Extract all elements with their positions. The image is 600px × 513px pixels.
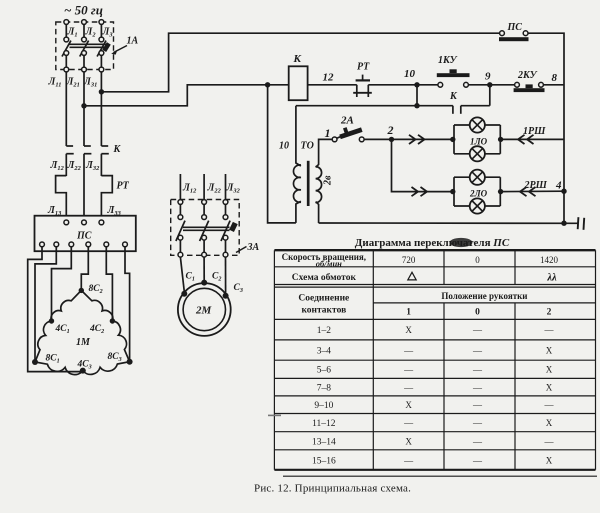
wire junction down to primary bottom rail [268, 85, 296, 223]
breaker 1А handle blob [104, 43, 109, 50]
svg-text:С1: С1 [186, 272, 195, 283]
svg-text:—: — [472, 346, 483, 356]
svg-text:Л2: Л2 [85, 27, 97, 39]
svg-text:4С2: 4С2 [89, 324, 104, 335]
node 4С1 [49, 318, 54, 323]
svg-text:К: К [449, 91, 458, 102]
svg-text:720: 720 [402, 255, 416, 265]
svg-text:9–10: 9–10 [314, 401, 333, 411]
svg-text:4С1: 4С1 [55, 324, 70, 335]
terminal С1 [181, 291, 187, 297]
lamp group 1ЛО [454, 117, 500, 161]
svg-text:0: 0 [475, 307, 480, 317]
ПС bottom terminal 2 [54, 242, 59, 247]
svg-text:—: — [544, 400, 555, 410]
breaker 3А pole 2 [200, 200, 209, 258]
svg-text:15–16: 15–16 [312, 457, 336, 467]
svg-text:—: — [544, 325, 555, 335]
svg-text:—: — [403, 346, 414, 356]
junction node on К branch [414, 103, 419, 108]
svg-text:1: 1 [325, 126, 331, 140]
thermal relay contact РТ [353, 75, 372, 97]
connector socket 1РШ [527, 135, 534, 144]
pushbutton 1КУ [437, 69, 470, 87]
svg-text:РТ: РТ [117, 181, 130, 192]
node 4С2 [110, 318, 115, 323]
svg-text:Л1: Л1 [67, 27, 78, 39]
svg-text:λλ: λλ [546, 273, 557, 284]
svg-text:X: X [405, 325, 412, 335]
wire node 2 down to branch 2 [392, 139, 452, 191]
svg-text:13–14: 13–14 [312, 437, 336, 447]
svg-text:—: — [472, 365, 483, 375]
node 8С2 [79, 288, 84, 293]
svg-text:—: — [403, 382, 414, 392]
svg-text:—: — [403, 418, 414, 428]
motor 1М winding [35, 290, 130, 374]
wire secondary bottom rail to earth [319, 222, 578, 224]
svg-text:0: 0 [475, 255, 480, 265]
svg-text:X: X [546, 365, 553, 375]
wire stub Л32 (to 3А) [225, 174, 227, 200]
wire Л21 to coil К [84, 85, 289, 106]
wire 1ЛО to 1РШ [500, 138, 564, 140]
svg-text:Рис. 12. Принципиальная схе: Рис. 12. Принципиальная схема. [254, 483, 411, 495]
svg-text:Диаграмма переключателя ПС: Диаграмма переключателя ПС [355, 237, 510, 249]
wire 3А to С2 [203, 257, 205, 282]
svg-text:С2: С2 [212, 272, 221, 283]
svg-text:Л22: Л22 [67, 160, 82, 172]
wire Л21 phase [83, 72, 85, 146]
node 4С3 [80, 368, 86, 374]
wire ПС t1 to node 4С3 [28, 247, 83, 372]
label 1А with leader arrow [111, 36, 138, 55]
ПС bottom terminal 5 [104, 242, 109, 247]
transformer ТО primary winding [293, 165, 300, 202]
svg-text:2РШ: 2РШ [524, 180, 548, 191]
svg-text:об/мин: об/мин [316, 259, 342, 269]
svg-text:X: X [405, 436, 412, 446]
svg-text:—: — [472, 382, 483, 392]
node 8С1 [32, 359, 38, 365]
terminal С3 [223, 293, 229, 299]
contactor coil К [289, 66, 308, 100]
junction right of 2ЛО [498, 189, 503, 194]
svg-text:—: — [472, 436, 483, 446]
svg-text:—: — [472, 418, 483, 428]
wire ПС t3 to node 4С1 [52, 247, 72, 321]
svg-text:—: — [472, 400, 483, 410]
ПС top terminal 33 [99, 220, 104, 225]
transformer ТО secondary top lead [316, 139, 333, 167]
svg-text:Л31: Л31 [83, 77, 97, 89]
wire РТ to node 10 [368, 84, 438, 86]
svg-text:—: — [472, 456, 483, 466]
svg-text:2КУ: 2КУ [517, 70, 538, 81]
lamp group 2ЛО [454, 170, 500, 214]
svg-text:Л3: Л3 [102, 27, 114, 39]
svg-text:Схема обмоток: Схема обмоток [292, 272, 357, 283]
ink smudge on title [450, 238, 473, 247]
switch ПС body [35, 216, 136, 252]
earth symbol [578, 217, 585, 230]
svg-text:X: X [546, 418, 553, 428]
breaker 3А mechanical link bar [183, 226, 230, 228]
svg-text:Л21: Л21 [66, 77, 80, 89]
svg-text:2в: 2в [323, 175, 334, 186]
transformer ТО secondary winding [316, 167, 322, 203]
svg-text:X: X [405, 400, 412, 410]
svg-text:—: — [472, 325, 483, 335]
svg-text:4: 4 [555, 180, 562, 192]
svg-text:Л32: Л32 [85, 160, 100, 172]
stray scan mark [268, 415, 281, 417]
wire stub Л22 (to 3А) [203, 174, 205, 200]
svg-text:2: 2 [387, 123, 394, 137]
svg-text:5–6: 5–6 [317, 366, 332, 376]
svg-text:8С2: 8С2 [89, 284, 103, 295]
wire ПС t2 to node 8С1 [35, 247, 56, 362]
breaker 3А dashed enclosure [171, 200, 240, 256]
svg-text:~ 50 гц: ~ 50 гц [64, 3, 103, 18]
wire Л31 to ПС contact (top run) [101, 33, 499, 92]
svg-text:8С3: 8С3 [108, 352, 122, 363]
svg-text:3–4: 3–4 [317, 347, 332, 357]
breaker 3А pole 1 [176, 200, 185, 258]
junction left of 2ЛО [450, 189, 455, 194]
wire Л31 phase [100, 72, 102, 146]
thermal relay РТ heater pole 1 [56, 176, 67, 220]
svg-text:1А: 1А [127, 36, 139, 47]
svg-text:4С3: 4С3 [77, 360, 92, 371]
svg-text:1420: 1420 [540, 255, 559, 265]
junction node to transformer branch [265, 82, 270, 87]
svg-text:—: — [403, 365, 414, 375]
svg-text:X: X [546, 382, 553, 392]
wire 1КУ to node 9 [468, 84, 514, 86]
svg-text:1: 1 [406, 307, 411, 317]
transformer ТО primary lead [296, 106, 301, 166]
svg-text:1КУ: 1КУ [438, 55, 458, 66]
contactor К main contact pole 3 [101, 146, 108, 176]
junction left of 1ЛО [450, 137, 455, 142]
wire 2КУ to node 8 [543, 84, 564, 86]
svg-text:Л11: Л11 [48, 77, 62, 89]
svg-text:2А: 2А [340, 115, 354, 127]
breaker 1А pole 1 [62, 20, 71, 72]
ПС top terminal 13 [64, 220, 69, 225]
node 10 [414, 82, 419, 87]
svg-text:9: 9 [485, 71, 491, 83]
svg-text:2М: 2М [195, 305, 213, 317]
contact К (auxiliary, parallel to 1КУ) [296, 85, 490, 114]
svg-text:X: X [546, 346, 553, 356]
node 8С3 [127, 359, 133, 365]
ПС bottom terminal 1 [40, 242, 45, 247]
junction on Л31 [99, 89, 104, 94]
svg-text:—: — [544, 436, 555, 446]
ПС top terminal 23 [82, 220, 87, 225]
svg-text:X: X [546, 456, 553, 466]
svg-text:ПС: ПС [76, 231, 92, 242]
connector plug on branch 1 [409, 135, 416, 144]
breaker 3А pole 3 [221, 200, 230, 258]
svg-text:К: К [293, 53, 302, 65]
svg-text:ПС: ПС [507, 22, 523, 33]
breaker 1А dashed enclosure [56, 22, 114, 70]
breaker 1А pole 3 [97, 20, 106, 72]
label 3А with leader [236, 242, 260, 253]
svg-text:Л32: Л32 [226, 183, 241, 195]
wire ПС t6 to node 8С3 [125, 247, 130, 362]
wire coil К to РТ [308, 84, 357, 86]
ПС bottom terminal 6 [123, 242, 128, 247]
svg-text:Л12: Л12 [182, 183, 197, 195]
svg-text:Положение рукоятки: Положение рукоятки [441, 291, 527, 301]
wire stub Л12 (to 3А) [179, 174, 181, 200]
svg-text:2: 2 [547, 307, 552, 317]
breaker 3А handle blob [232, 223, 236, 231]
node 9 [487, 82, 492, 87]
svg-text:—: — [403, 456, 414, 466]
switch 2А [332, 128, 364, 142]
svg-text:11–12: 11–12 [312, 419, 336, 429]
contactor К main contact pole 1 [66, 146, 73, 176]
transformer ТО core [307, 161, 310, 206]
svg-text:10: 10 [404, 68, 416, 80]
svg-text:1М: 1М [76, 337, 91, 348]
contactor К main contact pole 2 [84, 146, 91, 220]
svg-text:С3: С3 [234, 283, 243, 294]
svg-text:Л12: Л12 [50, 160, 65, 172]
terminal С2 [201, 280, 207, 286]
wire ПС to node 8 and down right side [528, 33, 564, 223]
node 4 [561, 189, 566, 194]
wire ПС t4 to node 8С2 [81, 247, 88, 291]
contact ПС (auxiliary, top) [499, 31, 529, 41]
svg-text:1ЛО: 1ЛО [470, 136, 488, 146]
svg-text:2ЛО: 2ЛО [469, 189, 488, 199]
svg-text:8: 8 [552, 72, 558, 84]
motor 2М body [178, 283, 231, 336]
wire ПС t5 to node 4С2 [106, 247, 112, 321]
ПС bottom terminal 3 [69, 242, 74, 247]
svg-text:Л22: Л22 [207, 183, 222, 195]
svg-text:РТ: РТ [357, 62, 370, 73]
svg-text:Соединение: Соединение [298, 294, 349, 304]
svg-text:12: 12 [323, 72, 335, 84]
svg-text:К: К [113, 144, 122, 155]
wire node 2 lamp branch 1 [364, 138, 452, 140]
wire 2ЛО to 2РШ node 4 [500, 190, 564, 192]
transformer ТО secondary bottom lead [316, 202, 319, 223]
svg-text:1РШ: 1РШ [523, 126, 546, 137]
svg-text:контактов: контактов [301, 306, 346, 316]
wire Л11 phase [65, 72, 67, 146]
node 2 [389, 137, 394, 142]
junction node on ground rail [561, 221, 566, 226]
svg-text:1–2: 1–2 [317, 326, 332, 336]
wire 3А to С1 [180, 257, 184, 292]
junction on Л21 [81, 103, 86, 108]
table: Диаграмма переключателя ПС [274, 237, 597, 476]
svg-text:ТО: ТО [301, 141, 314, 152]
breaker 1А mechanical link bar [69, 43, 108, 45]
pushbutton 2КУ [514, 82, 545, 92]
junction right of 1ЛО [498, 137, 503, 142]
wire 3А to С3 [225, 257, 227, 294]
connector socket 2РШ [529, 187, 536, 196]
svg-text:3А: 3А [247, 242, 260, 253]
svg-text:8С1: 8С1 [46, 354, 60, 365]
transformer ТО primary bottom lead [296, 201, 301, 223]
svg-text:7–8: 7–8 [317, 383, 332, 393]
svg-text:10: 10 [279, 141, 289, 152]
thermal relay РТ heater pole 3 [101, 176, 112, 220]
connector plug on branch 2 [412, 187, 419, 196]
breaker 1А pole 2 [80, 20, 89, 72]
ПС bottom terminal 4 [86, 242, 91, 247]
